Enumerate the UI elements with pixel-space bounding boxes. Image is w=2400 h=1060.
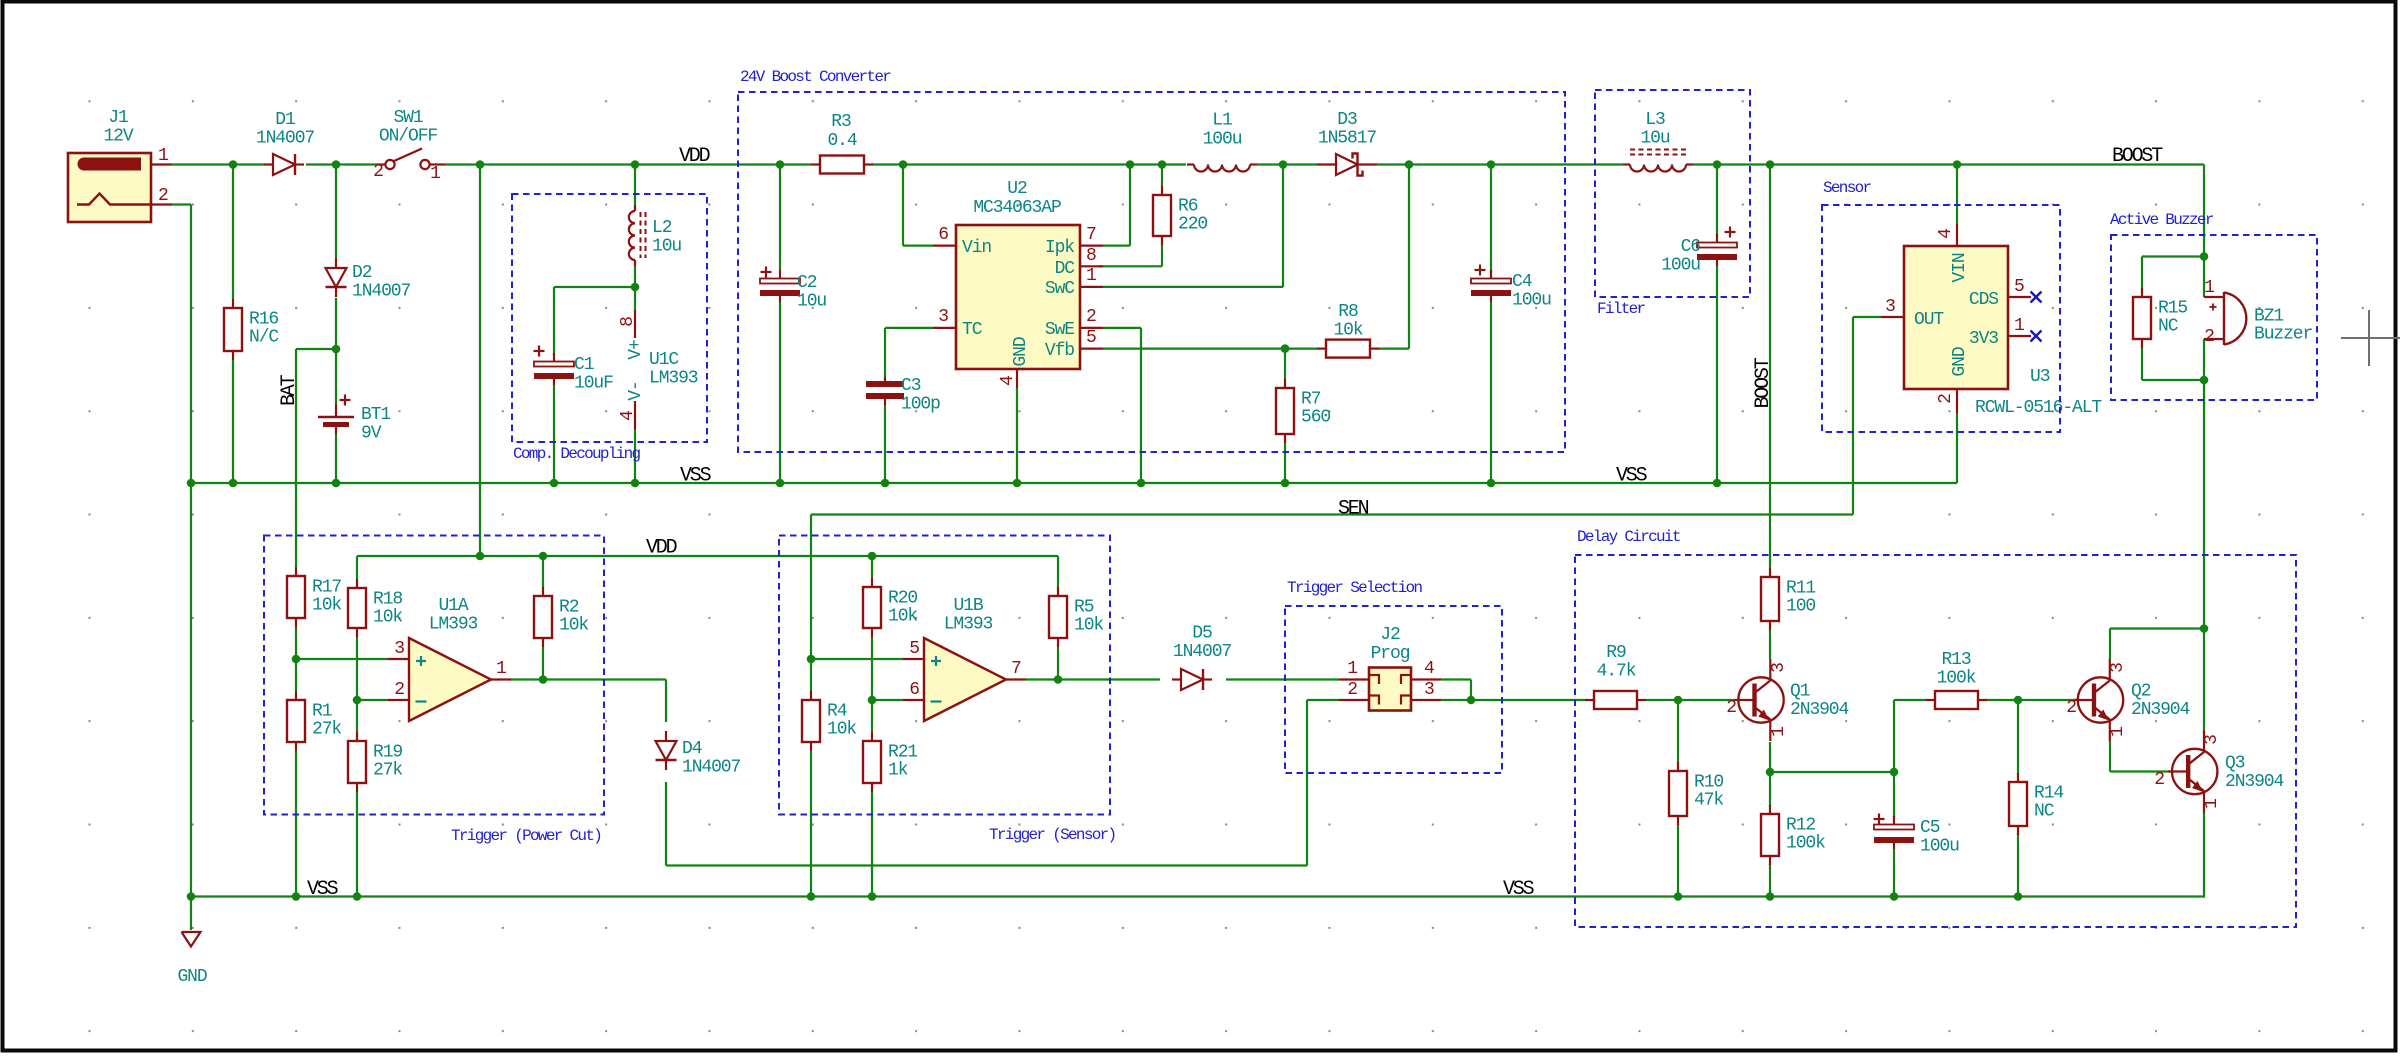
svg-text:BAT: BAT	[278, 374, 301, 406]
svg-text:100k: 100k	[1937, 669, 1976, 689]
svg-text:2N3904: 2N3904	[2225, 772, 2284, 792]
wire C3 column	[884, 328, 886, 377]
wire C2 top	[779, 165, 781, 271]
wire switch output down to trigger VDD	[479, 165, 481, 557]
svg-text:Filter: Filter	[1597, 300, 1646, 318]
wire BAT tap horizontal	[296, 348, 336, 350]
wire R18 bottom to node	[356, 637, 358, 700]
junction (903,164.5)	[899, 160, 908, 169]
svg-text:NC: NC	[2034, 802, 2055, 822]
junction (191,896.5)	[187, 892, 196, 901]
resistor R9 4.7k	[1585, 699, 1594, 701]
wire BT1 to VSS	[335, 434, 337, 483]
svg-text:U2: U2	[1007, 179, 1027, 199]
wire U2 GND pin to VSS	[1016, 388, 1018, 483]
wire R15 bottom link	[2141, 348, 2143, 380]
svg-text:10k: 10k	[827, 720, 856, 740]
wire U3 OUT drop to SEN	[1852, 317, 1854, 515]
svg-text:100p: 100p	[901, 395, 940, 415]
svg-text:Vin: Vin	[962, 238, 991, 258]
U3 pin 2 GND	[1956, 389, 1958, 413]
wire U2 DC to R6	[1099, 265, 1162, 267]
svg-text:Q3: Q3	[2225, 754, 2245, 774]
svg-text:C6: C6	[1681, 237, 1701, 257]
svg-text:5: 5	[909, 639, 919, 659]
wire trigger VDD line	[357, 555, 1058, 557]
svg-text:3: 3	[1769, 663, 1789, 673]
svg-text:R18: R18	[373, 590, 402, 610]
wire C4 bottom to VSS	[1490, 302, 1492, 483]
junction (780,483)	[776, 479, 785, 488]
svg-text:3V3: 3V3	[1969, 329, 1998, 349]
svg-text:Sensor: Sensor	[1823, 179, 1872, 197]
wire top rail SW1 to R3	[445, 163, 811, 165]
svg-text:10u: 10u	[1640, 129, 1669, 149]
resistor R12 100k	[1769, 805, 1771, 814]
svg-text:LM393: LM393	[944, 615, 993, 635]
svg-text:3: 3	[1885, 297, 1895, 317]
svg-text:1: 1	[2108, 727, 2128, 737]
wire Q1 emitter line to C5	[1770, 771, 1894, 773]
svg-text:Trigger Selection: Trigger Selection	[1287, 579, 1422, 597]
wire top rail R3 to L1	[872, 163, 1186, 165]
junction (1678,896.5)	[1674, 892, 1683, 901]
junction (336,483)	[332, 479, 341, 488]
junction (1717,483)	[1713, 479, 1722, 488]
svg-text:4.7k: 4.7k	[1597, 662, 1636, 682]
svg-text:Q2: Q2	[2131, 682, 2151, 702]
svg-text:R19: R19	[373, 743, 402, 763]
wire C5 node up to R13	[1893, 700, 1895, 772]
wire top rail L3 to right corner (BOOST)	[1693, 163, 2204, 165]
svg-text:1: 1	[1086, 266, 1096, 286]
wire U2 SwE to VSS	[1103, 327, 1141, 329]
junction (543,679.5)	[539, 675, 548, 684]
svg-text:SW1: SW1	[393, 108, 422, 128]
svg-text:V-: V-	[626, 381, 646, 400]
wire U1A - input	[357, 699, 388, 701]
junction (811,896.5)	[807, 892, 816, 901]
svg-text:DC: DC	[1055, 259, 1076, 279]
svg-text:Active Buzzer: Active Buzzer	[2110, 211, 2214, 229]
svg-text:3: 3	[2108, 663, 2128, 673]
svg-text:GND: GND	[1950, 347, 1970, 376]
wire U3 OUT pin	[1853, 316, 1881, 318]
junction (357,700)	[353, 696, 362, 705]
wire C1 bottom to VSS	[553, 385, 555, 483]
wire J2 pin3 to R9	[1441, 699, 1586, 701]
wire U1A + input	[296, 658, 388, 660]
resistor R13 100k	[1926, 699, 1935, 701]
wire U3 GND pin to VSS	[1956, 413, 1958, 483]
svg-text:7: 7	[1086, 225, 1096, 245]
junction (1285,483)	[1281, 479, 1290, 488]
resistor R20 10k	[871, 578, 873, 587]
svg-text:C3: C3	[901, 376, 921, 396]
wire VSS lower rail	[191, 895, 2205, 897]
resistor R17 10k	[295, 567, 297, 576]
svg-text:1: 1	[2014, 316, 2024, 336]
svg-text:2: 2	[394, 680, 404, 700]
wire D4 column bottom	[665, 782, 667, 866]
group box Filter	[1595, 90, 1750, 297]
svg-text:0.4: 0.4	[827, 131, 856, 151]
resistor R5 10k	[1057, 587, 1059, 596]
wire R17 bottom to node	[295, 627, 297, 659]
svg-text:R13: R13	[1941, 650, 1970, 670]
junction (1491,483)	[1487, 479, 1496, 488]
junction (2018,896.5)	[2014, 892, 2023, 901]
svg-text:R11: R11	[1786, 579, 1815, 599]
capacitor C3 100p	[884, 377, 886, 384]
svg-text:1N4007: 1N4007	[1173, 642, 1232, 662]
svg-text:U1A: U1A	[438, 596, 468, 616]
capacitor C1 10uF	[553, 353, 555, 364]
svg-text:R6: R6	[1178, 197, 1198, 217]
junction (1770,164.5)	[1766, 160, 1775, 169]
wire top rail D3 to L3	[1377, 163, 1623, 165]
svg-text:CDS: CDS	[1969, 290, 1998, 310]
wire R10 bottom to VSS	[1677, 824, 1679, 897]
junction (1162,164.5)	[1158, 160, 1167, 169]
svg-text:LM393: LM393	[429, 615, 478, 635]
group box Trigger (Sensor)	[779, 536, 1110, 815]
svg-text:VSS: VSS	[307, 878, 339, 901]
svg-text:27k: 27k	[373, 761, 402, 781]
wire SEN net horizontal	[811, 513, 1853, 515]
wire R7 bottom to VSS	[1284, 442, 1286, 483]
resistor R21 1k	[871, 732, 873, 741]
wire R5 top corner	[1057, 556, 1059, 587]
svg-text:R9: R9	[1606, 643, 1626, 663]
svg-text:1N4007: 1N4007	[682, 758, 741, 778]
inductor L2 10u	[629, 211, 635, 260]
junction (2204,380)	[2200, 376, 2209, 385]
junction (1957,164.5)	[1953, 160, 1962, 169]
svg-text:6: 6	[938, 225, 948, 245]
junction (872,700)	[868, 696, 877, 705]
svg-text:6: 6	[909, 680, 919, 700]
wire U1A output	[511, 678, 666, 680]
wire D4 column top	[665, 680, 667, 723]
svg-text:5: 5	[2014, 277, 2024, 297]
svg-text:ON/OFF: ON/OFF	[379, 127, 438, 147]
resistor R8 10k	[1317, 348, 1326, 350]
junction (2018,700)	[2014, 696, 2023, 705]
wire U1B + input	[811, 658, 903, 660]
junction (1285,348.6)	[1281, 344, 1290, 353]
wire Q2 emitter down	[2109, 741, 2111, 772]
wire VDD top rail from J1 to D1	[172, 163, 265, 165]
svg-text:D4: D4	[682, 739, 702, 759]
wire C6 top	[1716, 165, 1718, 237]
resistor R19 27k	[356, 732, 358, 741]
wire R8 to D3 output column	[1378, 348, 1409, 350]
U2 pin 4 GND	[1016, 369, 1018, 388]
junction (1058,679.5)	[1054, 675, 1063, 684]
svg-text:VDD: VDD	[646, 537, 677, 560]
wire D4 to J2 pin2 horizontal	[666, 864, 1307, 866]
wire R6 top to rail	[1161, 165, 1163, 187]
capacitor C6 100u	[1716, 234, 1718, 245]
svg-text:R10: R10	[1694, 773, 1723, 793]
diode D5 1N4007	[1172, 678, 1181, 680]
svg-text:GND: GND	[177, 967, 206, 987]
svg-text:4: 4	[1936, 229, 1956, 239]
svg-text:100u: 100u	[1920, 837, 1959, 857]
junction (2204,256.5)	[2200, 252, 2209, 261]
wire R16 column bottom	[232, 360, 234, 483]
svg-text:Trigger (Power Cut): Trigger (Power Cut)	[451, 827, 601, 845]
svg-text:U3: U3	[2030, 367, 2050, 387]
svg-text:4: 4	[1424, 659, 1434, 679]
wire R14 bottom to VSS	[2017, 834, 2019, 897]
svg-text:100k: 100k	[1786, 834, 1825, 854]
junction (233,164.5)	[229, 160, 238, 169]
svg-text:8: 8	[618, 317, 638, 327]
group box 24V Boost Converter	[738, 92, 1565, 452]
svg-text:SwE: SwE	[1045, 320, 1074, 340]
wire node to R21 top	[871, 700, 873, 732]
U2 pin 6 Vin	[933, 245, 956, 247]
svg-text:10k: 10k	[373, 608, 402, 628]
svg-text:3: 3	[2202, 735, 2222, 745]
svg-text:VSS: VSS	[1503, 878, 1535, 901]
wire R21 bottom to VSS	[871, 792, 873, 897]
svg-text:2: 2	[1086, 307, 1096, 327]
junction (1141,483)	[1137, 479, 1146, 488]
svg-text:Delay Circuit: Delay Circuit	[1577, 528, 1680, 546]
junction (480,556)	[476, 552, 485, 561]
svg-text:2N3904: 2N3904	[2131, 700, 2190, 720]
junction (480,164.5)	[476, 160, 485, 169]
svg-text:1: 1	[2202, 799, 2222, 809]
svg-text:TC: TC	[962, 320, 983, 340]
junction (780,164.5)	[776, 160, 785, 169]
junction (1770,896.5)	[1766, 892, 1775, 901]
svg-text:N/C: N/C	[249, 328, 279, 348]
wire U1C V- to VSS	[634, 429, 636, 483]
svg-text:10k: 10k	[1074, 616, 1103, 636]
svg-text:LM393: LM393	[649, 369, 698, 389]
wire Q1 emitter down	[1769, 742, 1771, 772]
wire D2 to BAT node	[335, 298, 337, 404]
svg-text:1k: 1k	[888, 761, 908, 781]
svg-text:VSS: VSS	[1616, 465, 1648, 488]
wire Q2 collector up and right	[2109, 629, 2111, 660]
svg-text:L1: L1	[1212, 111, 1232, 131]
svg-text:MC34063AP: MC34063AP	[973, 198, 1061, 218]
diode D4 1N4007	[665, 731, 667, 741]
svg-text:R7: R7	[1301, 390, 1321, 410]
wire J2 pin4 corner	[1441, 678, 1471, 680]
svg-text:2: 2	[373, 162, 383, 182]
svg-text:C2: C2	[797, 273, 817, 293]
wire top rail L1 to D3	[1257, 163, 1317, 165]
svg-text:VIN: VIN	[1950, 253, 1970, 282]
junction (635,164.5)	[631, 160, 640, 169]
junction (872,556)	[868, 552, 877, 561]
svg-text:R16: R16	[249, 310, 278, 330]
svg-text:VSS: VSS	[680, 465, 712, 488]
svg-text:C1: C1	[574, 355, 594, 375]
U2 pin 2 SwE	[1080, 327, 1103, 329]
wire R16 column top	[232, 165, 234, 300]
wire R9 to Q1 base	[1645, 699, 1735, 701]
svg-text:U1C: U1C	[649, 350, 679, 370]
diode D1 1N4007	[264, 163, 273, 165]
junction (554,483)	[550, 479, 559, 488]
svg-text:3: 3	[394, 639, 404, 659]
switch SW1 ON/OFF	[377, 163, 385, 165]
svg-text:BZ1: BZ1	[2254, 307, 2283, 327]
IC U2 MC34063AP	[956, 225, 1080, 369]
sheet origin cross marker	[2368, 310, 2370, 366]
svg-text:1N4007: 1N4007	[256, 129, 315, 149]
svg-text:U1B: U1B	[953, 596, 983, 616]
wire R11 bottom to Q1 collector	[1769, 630, 1771, 659]
junction (811,659)	[807, 655, 816, 664]
svg-text:100: 100	[1786, 597, 1815, 617]
svg-text:10k: 10k	[559, 616, 588, 636]
svg-text:R12: R12	[1786, 816, 1815, 836]
wire C1 top	[553, 287, 555, 355]
svg-text:GND: GND	[1011, 337, 1031, 366]
inductor L3 10u with core	[1630, 165, 1686, 172]
svg-text:3: 3	[1424, 680, 1434, 700]
svg-text:R4: R4	[827, 702, 847, 722]
svg-text:47k: 47k	[1694, 791, 1723, 811]
svg-text:R8: R8	[1338, 302, 1358, 322]
svg-text:Ipk: Ipk	[1045, 238, 1074, 258]
resistor R2 10k	[542, 587, 544, 596]
wire R7 top	[1284, 349, 1286, 380]
wire R15 top link	[2142, 255, 2204, 257]
svg-text:2N3904: 2N3904	[1790, 700, 1849, 720]
junction (296,896.5)	[292, 892, 301, 901]
svg-text:SwC: SwC	[1045, 279, 1075, 299]
junction (635,287)	[631, 283, 640, 292]
svg-text:24V Boost Converter: 24V Boost Converter	[740, 68, 891, 86]
svg-text:1: 1	[1769, 727, 1789, 737]
svg-text:560: 560	[1301, 408, 1330, 428]
svg-text:Prog: Prog	[1371, 644, 1410, 664]
wire R14 top	[2017, 700, 2019, 774]
diode D2 1N4007	[335, 258, 337, 268]
junction (1717,164.5)	[1713, 160, 1722, 169]
svg-text:27k: 27k	[312, 720, 341, 740]
resistor R11 100	[1769, 568, 1771, 577]
wire U2 Ipk to rail	[1103, 245, 1130, 247]
wire R13 to Q2 base	[1986, 699, 2078, 701]
svg-text:L2: L2	[652, 218, 672, 238]
resistor R1 27k	[295, 691, 297, 700]
svg-text:5: 5	[1086, 328, 1096, 348]
op-amp U1C power unit LM393	[634, 310, 636, 338]
svg-text:1N5817: 1N5817	[1318, 129, 1377, 149]
svg-text:R3: R3	[831, 112, 851, 132]
svg-text:V+: V+	[626, 340, 646, 360]
svg-text:R2: R2	[559, 598, 579, 618]
svg-text:Comp. Decoupling: Comp. Decoupling	[513, 445, 641, 463]
svg-text:BT1: BT1	[361, 405, 390, 425]
connector J1 12V barrel jack	[68, 153, 151, 222]
svg-text:Trigger (Sensor): Trigger (Sensor)	[989, 826, 1115, 844]
svg-text:2: 2	[1936, 394, 1956, 404]
wire BOOST vertical drop to R11	[1769, 165, 1771, 569]
U2 pin 5 Vfb	[1080, 348, 1103, 350]
junction (872,896.5)	[868, 892, 877, 901]
wire top rail D1 to SW1	[306, 163, 377, 165]
svg-text:BOOST: BOOST	[1752, 357, 1775, 408]
wire J1 pin2 left column down to GND	[190, 205, 192, 931]
junction (1491,164.5)	[1487, 160, 1496, 169]
wire SEN drop to U1B + input	[810, 515, 812, 660]
svg-text:10k: 10k	[1333, 321, 1362, 341]
junction (885,483)	[881, 479, 890, 488]
svg-text:J1: J1	[108, 108, 128, 128]
wire C5 bottom to VSS	[1893, 849, 1895, 897]
junction (1770,772)	[1766, 768, 1775, 777]
wire L2 bottom to node	[634, 266, 636, 287]
svg-text:R21: R21	[888, 743, 917, 763]
transistor Q2 2N3904	[2078, 677, 2123, 722]
svg-text:Buzzer: Buzzer	[2254, 325, 2313, 345]
wire buzzer pin 2 down to Q2/Q3 collectors	[2203, 339, 2205, 735]
svg-text:1: 1	[430, 164, 440, 184]
svg-text:C5: C5	[1920, 818, 1940, 838]
wire Q3 emitter down to VSS	[2203, 812, 2205, 898]
U2 pin 7 Ipk	[1080, 245, 1103, 247]
wire R4 top	[810, 659, 812, 691]
wire BAT vertical to R17	[295, 349, 297, 567]
transistor Q3 2N3904	[2172, 749, 2217, 794]
svg-text:R17: R17	[312, 578, 341, 598]
svg-text:100u: 100u	[1512, 291, 1551, 311]
svg-text:2: 2	[1726, 698, 1736, 718]
junction (1017,483)	[1013, 479, 1022, 488]
group box Sensor	[1822, 205, 2060, 432]
capacitor C2 10u	[779, 270, 781, 281]
svg-text:Vfb: Vfb	[1045, 341, 1074, 361]
svg-text:12V: 12V	[103, 127, 133, 147]
junction (191,483)	[187, 479, 196, 488]
svg-text:2: 2	[1347, 680, 1357, 700]
svg-text:2: 2	[2066, 698, 2076, 718]
wire rail to U2 Vin vertical	[902, 165, 904, 246]
wire R2 top	[542, 556, 544, 587]
capacitor C4 100u	[1490, 270, 1492, 281]
svg-text:NC: NC	[2158, 317, 2179, 337]
wire U1B output to D5	[1026, 678, 1160, 680]
svg-text:4: 4	[998, 376, 1018, 386]
svg-text:R20: R20	[888, 589, 917, 609]
svg-text:D3: D3	[1337, 110, 1357, 130]
junction (336,164.5)	[332, 160, 341, 169]
resistor R6 220	[1161, 186, 1163, 195]
junction (357,896.5)	[353, 892, 362, 901]
wire L2 column top	[634, 165, 636, 206]
ground symbol GND	[182, 932, 201, 947]
svg-text:2: 2	[158, 186, 168, 206]
wire R10 top	[1677, 700, 1679, 763]
wire R18 top corner	[356, 556, 358, 579]
group box Active Buzzer	[2111, 235, 2317, 400]
svg-text:Q1: Q1	[1790, 682, 1810, 702]
svg-text:3: 3	[938, 307, 948, 327]
group box Delay Circuit	[1575, 555, 2296, 927]
U2 pin 1 SwC	[1080, 286, 1103, 288]
